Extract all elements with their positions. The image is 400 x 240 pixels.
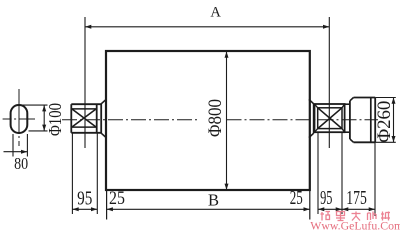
svg-text:95: 95 (77, 188, 92, 210)
svg-text:95: 95 (320, 187, 332, 209)
arrowhead Phi100 top (42, 105, 46, 111)
extension line below left bearing right edge (96, 133, 98, 214)
extension line below drum right edge (309, 190, 311, 220)
shaft neck right (345, 103, 350, 105)
svg-text:B: B (208, 191, 219, 210)
extension line below right bearing left edge (317, 132, 319, 214)
extension line below coupling right (374, 142, 376, 216)
Phi100 extension line top (19, 104, 48, 106)
extension line below right bearing right edge (341, 132, 343, 214)
Phi260 extension line top (375, 97, 396, 99)
extension line below left bearing left edge (71, 133, 73, 214)
bottom dimension line 95 left (72, 208, 97, 210)
dimension line 80 (4, 151, 28, 153)
bearing block right: outer box (315, 104, 345, 132)
svg-text:A: A (210, 4, 221, 20)
bottom dimension line B (107, 208, 310, 210)
right hub chamfer bottom (309, 133, 314, 137)
stadium vertical centerline (18, 89, 20, 146)
arrowhead Phi800 bottom (225, 184, 229, 190)
80 extension line left (12, 134, 14, 157)
coupling bottom edge (354, 141, 376, 143)
coupling left face (349, 101, 351, 139)
dimension line A (85, 26, 329, 28)
svg-text:25: 25 (290, 187, 303, 209)
dimension A extension line right (bearing centerline) (328, 17, 330, 148)
main horizontal centerline (62, 119, 198, 121)
right hub chamfer top (309, 99, 314, 103)
svg-text:Φ100: Φ100 (45, 103, 65, 136)
svg-text:Www.GeLufu.Com: Www.GeLufu.Com (310, 219, 400, 233)
bearing block right: inner box (318, 108, 342, 129)
bearing block left: cross X (72, 109, 96, 127)
Phi100 extension line bottom (29, 130, 48, 132)
dimension A extension line left (bearing centerline) (84, 17, 86, 148)
dimension line Phi260 (393, 98, 395, 143)
dimension line Phi800 (226, 52, 228, 190)
Phi260 extension line bottom (375, 141, 396, 143)
extension line below drum left edge (106, 190, 108, 220)
bottom dimension line 175 (342, 208, 375, 210)
coupling right face (374, 98, 376, 143)
dimension line Phi100 (43, 105, 45, 131)
left hub chamfer bottom (101, 133, 106, 137)
right hub ring (313, 104, 315, 133)
shaft end view (stadium with flats) (11, 105, 28, 133)
bearing block left: inner lines (71, 108, 96, 110)
arrowhead Phi260 bottom (392, 136, 396, 142)
left hub chamfer top (101, 99, 106, 103)
drum body rectangle (106, 51, 310, 190)
bearing block left: outer box (70, 104, 72, 133)
arrowhead Phi100 bottom (42, 125, 46, 131)
watermark chinese characters (321, 212, 391, 221)
coupling chamfer top (350, 98, 354, 101)
svg-text:175: 175 (346, 187, 367, 209)
coupling chamfer bottom (350, 139, 354, 142)
coupling top edge (354, 97, 376, 99)
stadium horizontal centerline (3, 118, 35, 120)
bearing block right: corner chamfers (315, 104, 318, 108)
bottom dimension line 95 right (318, 208, 342, 210)
coupling flange line (370, 98, 372, 143)
bearing block right: cross X (318, 108, 342, 129)
80 extension line right (26, 134, 28, 157)
svg-text:80: 80 (14, 154, 28, 173)
svg-text:Φ260: Φ260 (375, 101, 395, 143)
arrowhead A right (323, 25, 329, 29)
arrowhead A left (85, 25, 91, 29)
arrowhead Phi260 top (392, 98, 396, 104)
left hub ring (100, 104, 102, 133)
svg-text:25: 25 (109, 188, 125, 209)
svg-text:Φ800: Φ800 (206, 99, 226, 137)
arrowhead 80 (21, 150, 27, 154)
arrowhead Phi800 top (225, 52, 229, 58)
